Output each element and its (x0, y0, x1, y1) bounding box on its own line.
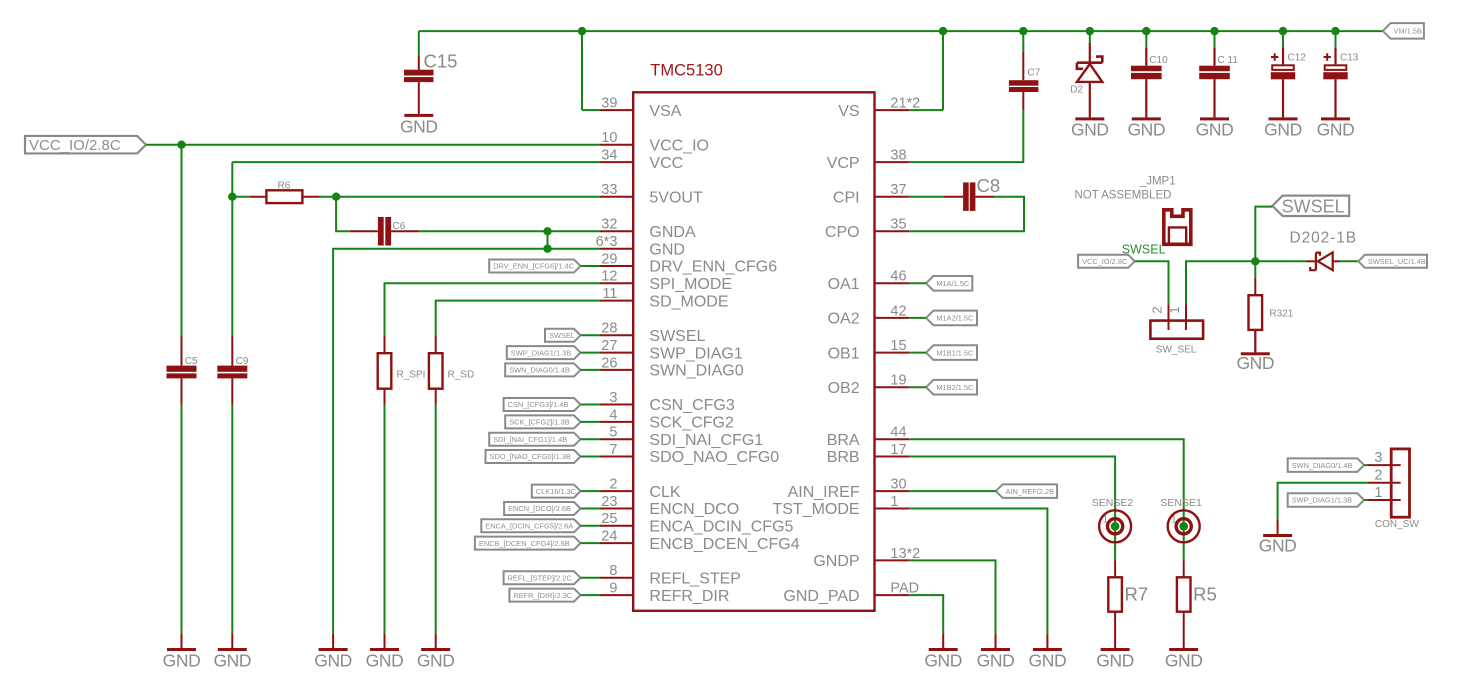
pin stub R321 to ground (1254, 330, 1256, 352)
wire SWP_DIAG1 (581, 352, 600, 354)
capacitor C12 (1271, 48, 1306, 117)
capacitor C10 (1131, 48, 1168, 117)
wire CLK (581, 490, 600, 492)
svg-text:REFL_[STEP]/2.2C: REFL_[STEP]/2.2C (508, 573, 573, 582)
svg-text:25: 25 (601, 511, 617, 527)
svg-text:DRV_ENN_[CFG6]/1.4C: DRV_ENN_[CFG6]/1.4C (493, 262, 574, 271)
svg-text:CPO: CPO (825, 224, 860, 241)
wire R6 left stub (232, 196, 250, 198)
svg-text:VSA: VSA (649, 103, 681, 120)
svg-text:GND: GND (924, 650, 962, 670)
wire C10 tap (1145, 31, 1147, 48)
svg-text:C8: C8 (977, 175, 1001, 196)
pin PAD GND_PAD stub (875, 594, 910, 596)
net flag SWSEL_UC/1.4B (1358, 255, 1427, 268)
ground GND under C13 (1317, 117, 1355, 139)
ground GND under R5 (1165, 648, 1203, 670)
pin 2 CLK stub (599, 490, 633, 492)
svg-text:1: 1 (890, 494, 898, 510)
wire C12 tap (1282, 31, 1284, 48)
wire C11 tap (1214, 31, 1216, 48)
capacitor C9 (217, 356, 249, 378)
wire C6 to GNDA (419, 230, 599, 232)
wire SW_SEL pin 1 to junction (1186, 261, 1255, 304)
svg-text:SWN_DIAG0/1.4B: SWN_DIAG0/1.4B (1292, 461, 1353, 470)
net flag VCC_IO/2.8C (small) (1078, 255, 1135, 268)
node VCC_IO / C5 junction (177, 141, 185, 149)
svg-text:SCK_[CFG2]/1.3B: SCK_[CFG2]/1.3B (509, 418, 569, 427)
ground GND at C15 (400, 114, 438, 136)
wire ENCA (581, 525, 600, 527)
wire DRV_ENN (581, 265, 600, 267)
net flag SCK_[CFG2]/1.3B (505, 415, 580, 428)
ground GND under C5 (163, 648, 201, 670)
svg-text:35: 35 (890, 217, 906, 233)
svg-text:SW_SEL: SW_SEL (1156, 344, 1197, 355)
wire CSN (581, 404, 600, 406)
pin 6*3 GND stub (599, 248, 633, 250)
op-amp U1 TMC5130 IC body (633, 92, 874, 611)
wire C9 to GND (231, 405, 233, 635)
pin stub to ground (384, 634, 386, 648)
svg-text:GND: GND (1259, 536, 1297, 556)
pin 38 VCP stub (875, 161, 910, 163)
svg-text:27: 27 (601, 338, 617, 354)
svg-text:C12: C12 (1288, 53, 1307, 64)
ground GND under R_SD (417, 648, 455, 670)
wire SDI (581, 438, 600, 440)
net flag DRV_ENN_[CFG6]/1.4C (489, 260, 580, 273)
ground GND under GND-net wire (314, 648, 352, 670)
resistor R5 (1177, 560, 1217, 648)
svg-text:13*2: 13*2 (890, 546, 920, 562)
svg-text:C6: C6 (393, 221, 406, 232)
svg-text:17: 17 (890, 442, 906, 458)
wire C8 to CPO pin 35 (909, 197, 1024, 232)
pin 4 SCK_CFG2 stub (599, 421, 633, 423)
svg-text:42: 42 (890, 303, 906, 319)
net flag M1B1/1.5C (926, 345, 977, 360)
svg-text:SWSEL: SWSEL (549, 331, 575, 340)
wire VM top rail (419, 30, 1383, 32)
svg-text:ENCN_[DCO]/2.6B: ENCN_[DCO]/2.6B (508, 504, 571, 513)
svg-text:GND: GND (1029, 650, 1067, 670)
pin 29 DRV_ENN_CFG6 stub (599, 265, 633, 267)
svg-text:38: 38 (890, 148, 906, 164)
svg-text:26: 26 (601, 355, 617, 371)
svg-text:CON_SW: CON_SW (1375, 519, 1419, 530)
wire SWSEL (581, 334, 600, 336)
wire GNDP to GND (909, 560, 995, 634)
pin 37 CPI stub (875, 196, 910, 198)
wire C15 tap (418, 31, 420, 56)
svg-text:5VOUT: 5VOUT (649, 189, 703, 206)
svg-text:SWN_DIAG0: SWN_DIAG0 (649, 363, 743, 380)
net flag REFR_[DIR]/2.3C (509, 589, 580, 602)
pin stub to ground (332, 634, 334, 648)
svg-text:24: 24 (601, 529, 617, 545)
svg-text:1: 1 (1167, 306, 1182, 313)
wire CON_SW pin 2 to GND (1278, 483, 1368, 520)
capacitor C5 (167, 356, 199, 378)
ground GND under C10 (1127, 117, 1165, 139)
svg-text:GNDP: GNDP (813, 553, 859, 570)
connector CON_SW (1367, 449, 1419, 530)
wire GND pin 6*3 run (333, 249, 599, 634)
svg-text:CLK: CLK (649, 484, 680, 501)
svg-text:33: 33 (601, 182, 617, 198)
ground GND under TST_MODE wire (1029, 648, 1067, 670)
svg-text:GND: GND (649, 241, 685, 258)
svg-text:39: 39 (601, 96, 617, 112)
node SWSEL junction (1251, 257, 1259, 265)
svg-text:C9: C9 (236, 356, 249, 367)
node GND net junction (543, 245, 551, 253)
pin 5 SDI_NAI_CFG1 stub (599, 438, 633, 440)
svg-text:30: 30 (890, 477, 906, 493)
svg-text:GND: GND (1236, 353, 1274, 373)
wire SDO (581, 456, 600, 458)
pin 19 OB2 stub (875, 386, 910, 388)
svg-text:D202-1B: D202-1B (1290, 229, 1357, 246)
ground GND under R_SPI (366, 648, 404, 670)
pin 28 SWSEL stub (599, 334, 633, 336)
svg-text:GND: GND (213, 650, 251, 670)
svg-text:R5: R5 (1193, 584, 1217, 605)
svg-text:GND: GND (400, 116, 438, 136)
svg-text:VCC_IO: VCC_IO (649, 137, 709, 154)
wire OB1 (909, 352, 926, 354)
wire SWP flag to CON_SW pin 1 (1364, 499, 1367, 501)
test point SENSE2 (1092, 497, 1134, 543)
diode D202-1B (1290, 229, 1357, 270)
capacitor C15 (404, 51, 457, 114)
wire SWSEL flag to junction (1255, 207, 1272, 278)
jumper _JMP1 symbol (1164, 210, 1191, 245)
svg-text:OB2: OB2 (828, 380, 860, 397)
svg-text:TST_MODE: TST_MODE (772, 501, 859, 518)
wire OB2 (909, 386, 926, 388)
svg-text:ENCA_DCIN_CFG5: ENCA_DCIN_CFG5 (649, 519, 793, 536)
svg-text:REFR_DIR: REFR_DIR (649, 588, 729, 605)
wire SWN flag to CON_SW pin 3 (1364, 464, 1367, 466)
pin 42 OA2 stub (875, 317, 910, 319)
svg-text:SWSEL_UC/1.4B: SWSEL_UC/1.4B (1368, 257, 1426, 266)
svg-text:SDO_[NAO_CFG0]/1.3B: SDO_[NAO_CFG0]/1.3B (490, 452, 571, 461)
wire SPI_MODE to R_SPI (385, 283, 600, 335)
capacitor C11 (1199, 48, 1238, 117)
pin 35 CPO stub (875, 230, 910, 232)
wire SD_MODE to R_SD (436, 301, 600, 336)
ground GND under R7 (1096, 648, 1134, 670)
wire ENCN (581, 508, 600, 510)
svg-text:GND: GND (1096, 650, 1134, 670)
svg-text:CSN_[CFG3]/1.4B: CSN_[CFG3]/1.4B (508, 400, 569, 409)
wire VCC_IO down to C5 (181, 145, 183, 337)
svg-text:SWN_DIAG0/1.4B: SWN_DIAG0/1.4B (509, 366, 570, 375)
pin 8 REFL_STEP stub (599, 577, 633, 579)
wire junction to D202 (1255, 260, 1306, 262)
svg-text:SDI_[NAI_CFG1]/1.4B: SDI_[NAI_CFG1]/1.4B (493, 435, 567, 444)
svg-text:VCC: VCC (649, 155, 683, 172)
node VM rail / C7 junction (1019, 27, 1027, 35)
resistor R6 (250, 180, 319, 203)
svg-text:2: 2 (1150, 306, 1165, 313)
pin stub C9 bottom (231, 378, 233, 404)
wire 5VOUT down to C6 (336, 197, 350, 232)
svg-text:29: 29 (601, 251, 617, 267)
svg-text:R321: R321 (1269, 309, 1293, 320)
node VM rail / C11 junction (1210, 27, 1218, 35)
svg-text:AIN_IREF: AIN_IREF (788, 484, 860, 501)
node GNDA / C6 junction (543, 227, 551, 235)
wire AIN_IREF (909, 490, 996, 492)
net flag SDO_[NAO_CFG0]/1.3B (486, 450, 581, 463)
wire R_SD to GND (435, 405, 437, 635)
svg-text:37: 37 (890, 182, 906, 198)
svg-text:SDO_NAO_CFG0: SDO_NAO_CFG0 (649, 449, 779, 466)
svg-text:SCK_CFG2: SCK_CFG2 (649, 415, 734, 432)
node VM rail / D2 junction (1086, 27, 1094, 35)
svg-text:10: 10 (601, 130, 617, 146)
svg-text:C15: C15 (424, 51, 458, 72)
svg-text:VCC_IO/2.8C: VCC_IO/2.8C (29, 137, 121, 154)
node VM rail / C10 junction (1142, 27, 1150, 35)
wire D202 to flag (1340, 260, 1358, 262)
pin 30 AIN_IREF stub (875, 490, 910, 492)
resistor R7 (1108, 560, 1148, 648)
node VCC / R6 junction (228, 193, 236, 201)
wire VSA riser (581, 31, 583, 110)
svg-text:BRA: BRA (827, 432, 860, 449)
ground GND under CON_SW (1259, 534, 1297, 556)
pin 10 VCC_IO stub (599, 144, 633, 146)
svg-text:GND: GND (163, 650, 201, 670)
pin 34 VCC stub (599, 161, 633, 163)
ground GND under C12 (1264, 117, 1302, 139)
svg-text:GND: GND (1196, 120, 1234, 140)
pin stub to ground (995, 634, 997, 648)
net flag SWN_DIAG0/1.4B (505, 363, 580, 376)
svg-text:34: 34 (601, 148, 617, 164)
svg-text:32: 32 (601, 217, 617, 233)
wire OA1 (909, 282, 926, 284)
svg-text:D2: D2 (1070, 85, 1083, 96)
svg-text:1: 1 (1374, 485, 1382, 501)
svg-text:9: 9 (609, 581, 617, 597)
wire BRB to SENSE2 (909, 457, 1115, 561)
svg-text:REFL_STEP: REFL_STEP (649, 570, 741, 587)
wire C7 to VCP pin 38 (909, 110, 1023, 163)
pin 25 ENCA_DCIN_CFG5 stub (599, 525, 633, 527)
pin 27 SWP_DIAG1 stub (599, 352, 633, 354)
net flag SWP_DIAG1/1.3B (507, 346, 581, 359)
svg-text:VM/1.5B: VM/1.5B (1394, 27, 1422, 36)
wire GND_PAD to GND (909, 595, 943, 634)
svg-text:SWP_DIAG1/1.3B: SWP_DIAG1/1.3B (1292, 496, 1352, 505)
wire VSA to pin 39 (582, 109, 599, 111)
wire VCC_IO flag to pin 10 (146, 144, 599, 146)
capacitor C8 (944, 175, 1000, 211)
svg-text:11: 11 (602, 286, 617, 302)
svg-text:SD_MODE: SD_MODE (649, 293, 728, 310)
pin 24 ENCB_DCEN_CFG4 stub (599, 542, 633, 544)
ground GND under GNDP wire (977, 648, 1015, 670)
pin stub to ground (181, 634, 183, 648)
wire VS to pin 21*2 (909, 109, 943, 111)
node VM rail / C12 junction (1279, 27, 1287, 35)
svg-text:C10: C10 (1149, 55, 1168, 66)
svg-text:OA1: OA1 (828, 276, 860, 293)
svg-text:C7: C7 (1028, 67, 1041, 78)
wire D2 tap (1089, 31, 1091, 43)
pin stub C5 bottom (181, 378, 183, 404)
ground GND under C11 (1196, 117, 1234, 139)
net flag M1A/1.5C (926, 276, 972, 291)
wire R_SPI to GND (384, 405, 386, 635)
wire VCC down to C9 (231, 162, 233, 336)
svg-text:GNDA: GNDA (649, 224, 696, 241)
svg-text:R7: R7 (1125, 584, 1149, 605)
pin 9 REFR_DIR stub (599, 594, 633, 596)
net flag ENCA_[DCIN_CFG5]/2.6A (481, 519, 580, 532)
net flag CSN_[CFG3]/1.4B (504, 398, 581, 411)
svg-text:15: 15 (890, 338, 906, 354)
pin 12 SPI_MODE stub (599, 282, 633, 284)
wire R6 to 5VOUT pin 33 (319, 196, 599, 198)
svg-text:DRV_ENN_CFG6: DRV_ENN_CFG6 (649, 259, 777, 276)
svg-text:M1A/1.5C: M1A/1.5C (936, 279, 970, 288)
svg-text:TMC5130: TMC5130 (650, 61, 722, 79)
pin 13*2 GNDP stub (875, 559, 910, 561)
svg-text:C13: C13 (1340, 53, 1359, 64)
svg-text:VCP: VCP (827, 155, 860, 172)
pin 7 SDO_NAO_CFG0 stub (599, 456, 633, 458)
svg-text:C 11: C 11 (1218, 55, 1239, 66)
pin stub C5 top (181, 337, 183, 366)
net flag SDI_[NAI_CFG1]/1.4B (489, 433, 580, 446)
svg-text:SWSEL: SWSEL (1282, 196, 1345, 216)
wire SCK (581, 421, 600, 423)
svg-text:AIN_REF/2.2B: AIN_REF/2.2B (1006, 487, 1055, 496)
svg-text:REFR_[DIR]/2.3C: REFR_[DIR]/2.3C (513, 591, 572, 600)
wire C13 tap (1335, 31, 1337, 48)
svg-text:GND: GND (977, 650, 1015, 670)
net flag SWP_DIAG1/1.3B (right) (1288, 493, 1364, 507)
pin 46 OA1 stub (875, 282, 910, 284)
pin stub C9 top (231, 337, 233, 366)
svg-text:OA2: OA2 (828, 311, 860, 328)
pin stub CON_SW GND (1277, 520, 1279, 534)
svg-text:44: 44 (890, 425, 906, 441)
svg-text:GND: GND (1127, 120, 1165, 140)
svg-text:ENCB_[DCEN_CFG4]/2.6B: ENCB_[DCEN_CFG4]/2.6B (479, 539, 570, 548)
diode D2 (zener) (1070, 43, 1102, 117)
svg-text:46: 46 (890, 269, 906, 285)
pin 33 5VOUT stub (599, 196, 633, 198)
svg-text:GND: GND (417, 650, 455, 670)
wire BRA to SENSE1 (909, 439, 1183, 560)
pin stub to ground (1046, 634, 1048, 648)
wire VS riser (942, 31, 944, 110)
svg-text:SWP_DIAG1: SWP_DIAG1 (649, 345, 742, 362)
svg-text:ENCB_DCEN_CFG4: ENCB_DCEN_CFG4 (649, 536, 799, 553)
pin 3 CSN_CFG3 stub (599, 404, 633, 406)
svg-text:SENSE1: SENSE1 (1160, 497, 1202, 509)
pin stub to ground (942, 634, 944, 648)
pin 44 BRA stub (875, 438, 910, 440)
wire VCC_IO to SW_SEL pin 2 (1135, 261, 1169, 304)
net flag VM/1.5B (1383, 23, 1424, 39)
pin 39 VSA stub (599, 109, 633, 111)
svg-text:2: 2 (609, 477, 617, 493)
net flag ENCB_[DCEN_CFG4]/2.6B (475, 537, 581, 550)
svg-text:CLK16/1.3C: CLK16/1.3C (536, 487, 577, 496)
svg-text:28: 28 (601, 321, 617, 337)
svg-text:8: 8 (609, 563, 617, 579)
pin 23 ENCN_DCO stub (599, 508, 633, 510)
svg-text:5: 5 (609, 425, 617, 441)
svg-text:R6: R6 (278, 180, 291, 191)
svg-text:M1B2/1.5C: M1B2/1.5C (936, 383, 974, 392)
ground GND under R321 (1236, 352, 1274, 373)
pin 21*2 VS stub (875, 109, 910, 111)
node 5VOUT / C6 junction (332, 193, 340, 201)
svg-text:GND: GND (1071, 120, 1109, 140)
svg-text:SDI_NAI_CFG1: SDI_NAI_CFG1 (649, 432, 763, 449)
svg-text:GND: GND (366, 650, 404, 670)
svg-text:R_SD: R_SD (448, 370, 475, 381)
resistor R_SD (429, 335, 474, 404)
wire C7 tap (1022, 31, 1024, 51)
connector SW_SEL (1150, 304, 1204, 355)
capacitor C7 (1009, 51, 1041, 109)
wire SWN_DIAG0 (581, 369, 600, 371)
net flag SWSEL pin28 (545, 329, 581, 342)
wire CPI to C8 (909, 196, 944, 198)
svg-text:21*2: 21*2 (890, 96, 920, 112)
svg-text:GND_PAD: GND_PAD (783, 588, 859, 605)
net flag SWN_DIAG0/1.4B (right) (1288, 458, 1364, 472)
wire C5 to GND (181, 405, 183, 635)
node VM rail / C13 junction (1331, 27, 1339, 35)
net flag VCC_IO/2.8C (25, 136, 146, 154)
svg-text:M1A2/1.5C: M1A2/1.5C (936, 314, 974, 323)
pin 1 TST_MODE stub (875, 508, 910, 510)
svg-text:SWSEL: SWSEL (649, 328, 705, 345)
net flag SWSEL (big) (1272, 196, 1349, 217)
svg-text:BRB: BRB (827, 449, 860, 466)
svg-text:7: 7 (609, 442, 617, 458)
svg-text:VCC_IO/2.8C: VCC_IO/2.8C (1082, 257, 1128, 266)
svg-text:CSN_CFG3: CSN_CFG3 (649, 397, 734, 414)
net flag REFL_[STEP]/2.2C (504, 571, 581, 584)
ground GND under D2 (1071, 117, 1109, 139)
svg-text:SPI_MODE: SPI_MODE (649, 276, 732, 293)
wire REFR (581, 594, 600, 596)
pin 26 SWN_DIAG0 stub (599, 369, 633, 371)
ground GND under GND_PAD wire (924, 648, 962, 670)
svg-text:19: 19 (890, 373, 906, 389)
svg-text:GND: GND (1317, 120, 1355, 140)
svg-text:SENSE2: SENSE2 (1092, 497, 1134, 509)
pin 11 SD_MODE stub (599, 300, 633, 302)
pin stub to ground (231, 634, 233, 648)
net flag M1B2/1.5C (926, 380, 977, 395)
svg-text:OB1: OB1 (828, 345, 860, 362)
pin 15 OB1 stub (875, 352, 910, 354)
wire VCC to pin 34 (232, 161, 599, 163)
